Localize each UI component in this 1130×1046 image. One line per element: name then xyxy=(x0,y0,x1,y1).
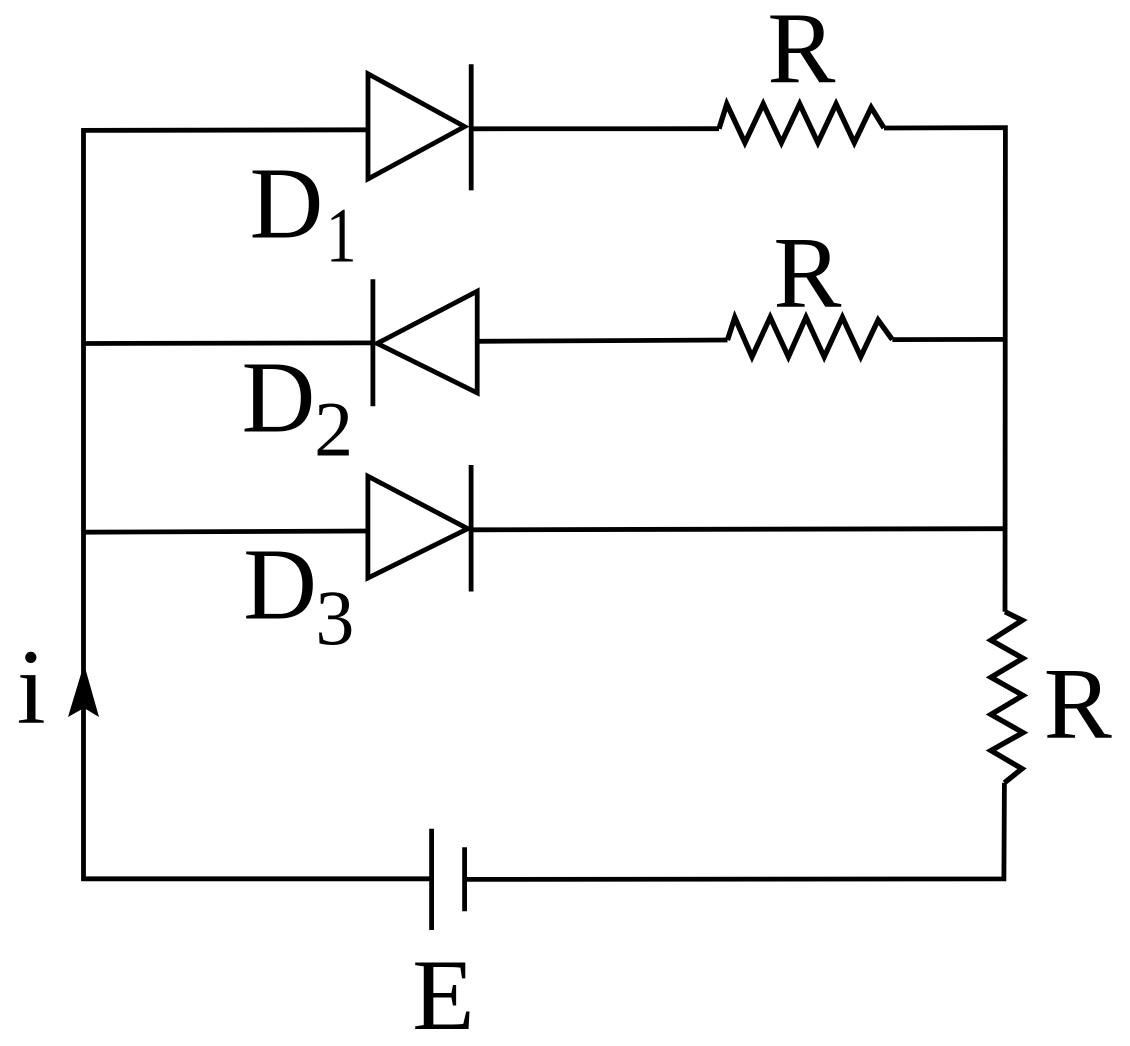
resistor R1 zigzag xyxy=(719,104,884,143)
diode D2 cathode bar xyxy=(370,279,375,406)
resistor R2 zigzag xyxy=(728,317,893,357)
svg-text:D: D xyxy=(250,148,324,261)
diode D3 cathode bar xyxy=(469,465,474,592)
diode D1 triangle xyxy=(368,74,465,179)
wire branch3 right segment xyxy=(471,529,1005,530)
svg-text:3: 3 xyxy=(315,574,354,661)
svg-text:D: D xyxy=(243,529,317,642)
svg-text:E: E xyxy=(412,939,474,1046)
diode D3 triangle xyxy=(368,476,468,578)
resistor R3 vertical zigzag xyxy=(991,612,1023,783)
wire branch2 left segment xyxy=(84,340,373,345)
svg-text:D: D xyxy=(242,342,316,455)
wire branch2 mid segment xyxy=(477,340,727,341)
wire right vertical lower + bottom segment xyxy=(465,783,1005,880)
wire branch1 right segment + right vertical upper xyxy=(884,128,1005,612)
current arrow head (i direction) xyxy=(68,664,99,717)
svg-text:1: 1 xyxy=(326,191,357,278)
svg-text:R: R xyxy=(1044,648,1112,761)
diode D1 cathode bar xyxy=(469,64,474,190)
svg-text:R: R xyxy=(767,0,835,106)
diode D2 triangle xyxy=(377,291,477,393)
wire branch2 right segment xyxy=(892,337,1005,342)
svg-text:2: 2 xyxy=(314,386,353,473)
wire branch1 mid segment xyxy=(471,126,719,131)
wire left vertical (node A rail) xyxy=(84,130,432,879)
wire branch3 left segment xyxy=(84,531,367,532)
battery E left plate (long) xyxy=(429,829,434,930)
battery E right plate (short) xyxy=(462,847,467,911)
svg-text:R: R xyxy=(773,217,841,330)
